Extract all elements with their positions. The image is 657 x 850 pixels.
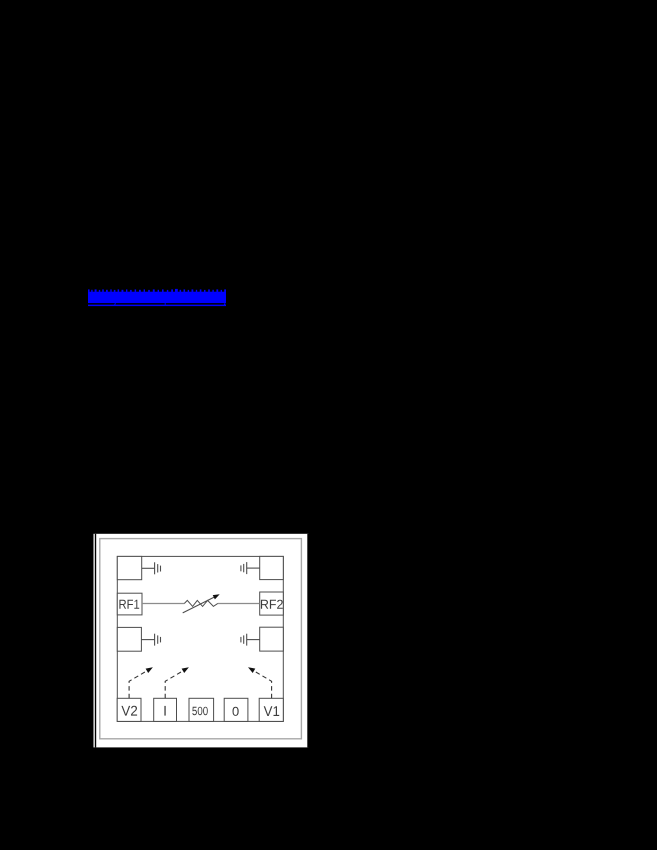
svg-text:www.skyworksinc.com/products/d: www.skyworksinc.com/products/d1234567	[88, 290, 226, 307]
